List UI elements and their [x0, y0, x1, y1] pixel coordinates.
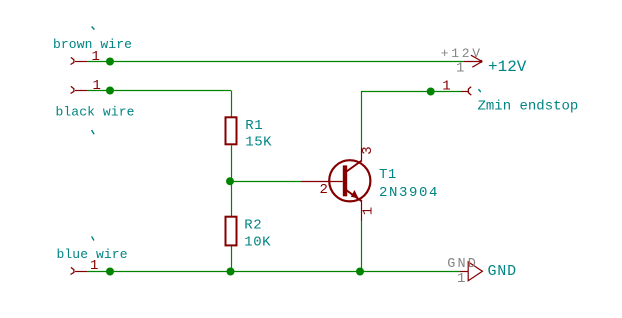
power symbol +12V (arrow) [464, 55, 483, 67]
wire R1 bottom to R2 top [231, 146, 233, 217]
junction on black wire [106, 87, 114, 95]
net label "black wire" [56, 105, 135, 120]
pin number 3 (collector, rotated) [360, 146, 376, 154]
junction blue wire [106, 268, 114, 276]
power pin number 1 (grey) [456, 60, 464, 76]
reference R2 [244, 217, 262, 233]
transistor Q1/T1 body circle [329, 160, 370, 201]
svg-text:1: 1 [457, 271, 465, 287]
transistor emitter stroke [347, 190, 362, 201]
tick above brown wire [92, 27, 95, 30]
svg-text:R1: R1 [245, 118, 263, 134]
wire black-wire down to R1 [231, 91, 233, 117]
connector pin (blue wire) [71, 267, 88, 274]
tick above blue wire [92, 237, 94, 241]
svg-text:T1: T1 [379, 167, 397, 183]
svg-text:GND: GND [447, 257, 478, 272]
wire collector horizontal to Zmin [361, 91, 461, 93]
wire collector up [361, 92, 363, 148]
connector pin (black wire) [71, 86, 88, 93]
resistor R2 body [226, 217, 237, 246]
svg-text:Zmin endstop: Zmin endstop [478, 98, 579, 114]
svg-text:+12V: +12V [488, 58, 527, 76]
svg-text:1: 1 [442, 78, 450, 94]
power value label GND (teal) [488, 263, 517, 280]
svg-text:blue wire: blue wire [57, 247, 128, 262]
svg-text:3: 3 [360, 146, 376, 154]
junction node base [226, 177, 234, 185]
reference R1 [245, 118, 263, 134]
connector pin (Zmin endstop, mirrored) [461, 87, 471, 96]
transistor collector pin (3) [361, 148, 363, 161]
transistor collector stroke [347, 161, 362, 172]
svg-text:R2: R2 [244, 217, 262, 233]
pin number 1 (black) [93, 78, 101, 94]
power pin name GND (grey) [447, 257, 478, 272]
svg-text:10K: 10K [244, 234, 271, 250]
tick above Zmin endstop [478, 89, 480, 92]
wire bottom rail [87, 271, 460, 273]
pin number 1 (emitter, rotated) [361, 207, 377, 215]
junction Zmin wire [427, 88, 435, 96]
junction on brown wire [106, 58, 114, 66]
pin number 1 (brown) [92, 49, 100, 65]
value 10K [244, 234, 271, 250]
svg-text:1: 1 [456, 60, 464, 76]
net label "blue wire" [57, 247, 128, 262]
transistor emitter arrow [351, 190, 359, 198]
net label "brown wire" [53, 37, 132, 52]
value 15K [245, 134, 272, 150]
wire brown-wire horizontal to +12V [87, 61, 464, 63]
pin number 1 (Zmin) [442, 78, 450, 94]
wire R2 bottom down [231, 246, 233, 272]
tick below black wire [92, 130, 95, 134]
wire base horizontal [229, 181, 301, 183]
wire emitter down [361, 221, 363, 272]
wire black-wire horizontal [87, 90, 231, 92]
svg-text:+12V: +12V [441, 46, 483, 61]
svg-text:1: 1 [361, 207, 377, 215]
pin number 1 (blue) [90, 258, 98, 274]
svg-text:2: 2 [320, 182, 328, 198]
resistor R1 body [226, 117, 237, 144]
power pin name +12V (grey) [441, 46, 483, 61]
power value label +12V (teal) [488, 58, 527, 76]
value 2N3904 [379, 185, 439, 201]
svg-text:GND: GND [488, 263, 517, 280]
power symbol GND (triangle) [460, 262, 482, 281]
connector pin (brown wire) [71, 57, 88, 64]
junction emitter rail [356, 268, 364, 276]
pin number 2 (base) [320, 182, 328, 198]
svg-text:2N3904: 2N3904 [379, 185, 439, 201]
transistor emitter pin (1) [361, 201, 363, 221]
transistor base pin (2) [301, 181, 343, 183]
reference T1 [379, 167, 397, 183]
net label "Zmin endstop" [478, 98, 579, 114]
svg-text:15K: 15K [245, 134, 272, 150]
transistor base bar [343, 165, 347, 196]
power pin number 1 (grey, GND) [457, 271, 465, 287]
junction R2 bottom [227, 268, 235, 276]
svg-text:1: 1 [93, 78, 101, 94]
svg-text:black wire: black wire [56, 105, 135, 120]
svg-text:brown wire: brown wire [53, 37, 132, 52]
